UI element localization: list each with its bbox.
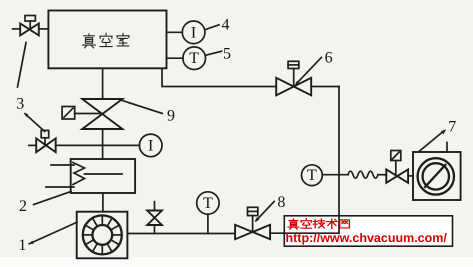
leader 7 arrowhead xyxy=(441,129,446,134)
valve 8 actuator box xyxy=(248,207,258,215)
valve 7v xyxy=(386,170,408,183)
svg-text:8: 8 xyxy=(277,194,285,211)
watermark box xyxy=(284,216,452,246)
leader 8 xyxy=(256,201,274,220)
pipe valve 9 to baffle box xyxy=(102,129,104,159)
vacuum chamber xyxy=(48,11,166,69)
valve 8 stem xyxy=(252,216,254,232)
svg-text:9: 9 xyxy=(167,108,175,125)
wire chamber to gauge I xyxy=(167,31,183,33)
valve 3a actuator box xyxy=(25,16,35,22)
leader 8 arrowhead xyxy=(255,217,260,222)
leader 1 arrowhead xyxy=(29,241,34,244)
main riser pipe xyxy=(338,87,340,234)
valve 6 (high-vacuum) xyxy=(276,78,311,96)
svg-text:http://www.chvacuum.com/: http://www.chvacuum.com/ xyxy=(286,231,448,245)
valve 7v stem xyxy=(395,161,397,176)
pump 1 inner circle xyxy=(92,225,112,245)
roughing pipe from pump xyxy=(127,233,235,235)
vent valve stub top xyxy=(154,202,156,211)
valve 3b stem xyxy=(44,138,46,145)
leader 5 xyxy=(206,51,222,55)
gauge T (foreline) xyxy=(302,165,323,186)
gauge Iz xyxy=(139,134,162,157)
valve 3a stem xyxy=(29,21,31,29)
svg-text:3: 3 xyxy=(16,96,24,113)
gauge I (ionization) xyxy=(182,21,205,44)
svg-text:7: 7 xyxy=(448,119,456,136)
roughing pipe valve 8 to riser xyxy=(270,232,339,234)
vent valve xyxy=(147,211,162,226)
leader 3 lower xyxy=(25,114,45,132)
baffle mid line xyxy=(85,173,123,175)
pump 1 outer circle xyxy=(83,215,122,254)
riser segment inside watermark xyxy=(338,216,340,233)
wire chamber to gauge T xyxy=(167,57,184,59)
pipe chamber bottom to valve 9 xyxy=(102,68,104,99)
leader 3 upper xyxy=(18,43,27,88)
svg-text:2: 2 xyxy=(19,198,27,215)
pipe chamber bottom-right to valve 6 xyxy=(162,68,276,86)
wire valve 3b to gauge Iz xyxy=(56,144,140,146)
valve 8 xyxy=(235,225,270,239)
valve 9 stem xyxy=(75,113,102,115)
unit 7 outer circle xyxy=(418,158,454,194)
roughing pipe inside watermark xyxy=(284,232,339,234)
svg-text:I: I xyxy=(191,24,196,41)
water line bottom xyxy=(46,186,74,188)
leader 2 xyxy=(34,192,71,205)
valve 3a (gas admittance, top) xyxy=(20,24,39,36)
flexible hose zigzag xyxy=(348,171,378,178)
svg-text:I: I xyxy=(148,137,153,154)
pump 1 square xyxy=(77,212,128,259)
valve 7v actuator box xyxy=(391,151,401,161)
vent valve stub bottom xyxy=(154,225,156,234)
pipe baffle to pump xyxy=(102,193,104,212)
watermark title 真空技术网 xyxy=(288,219,349,230)
gauge Tz stem xyxy=(207,214,209,233)
gauge T (thermocouple) xyxy=(183,47,206,70)
svg-text:T: T xyxy=(203,195,213,212)
leader 9 xyxy=(121,100,162,113)
pipe valve 6 to riser xyxy=(311,86,339,88)
leader 7 xyxy=(418,131,444,152)
valve 9 (main butterfly) xyxy=(82,99,122,129)
baffle box 2 xyxy=(71,159,135,193)
valve 6 actuator box xyxy=(288,61,299,68)
water line top xyxy=(51,164,74,166)
svg-text:4: 4 xyxy=(222,17,230,34)
wire stub left of valve 3a xyxy=(13,28,21,30)
wire stub left of valve 3b xyxy=(29,144,36,146)
wire gauge T to hose xyxy=(322,174,348,176)
svg-text:5: 5 xyxy=(223,45,231,62)
pump 1 spokes xyxy=(83,215,122,254)
valve 9 actuator box xyxy=(62,107,75,120)
gauge Tz xyxy=(197,192,219,214)
unit 7 top stub xyxy=(446,143,448,153)
wire hose to valve 7v xyxy=(378,174,386,176)
svg-text:1: 1 xyxy=(18,237,26,254)
svg-text:T: T xyxy=(189,50,199,67)
leader 6 arrowhead xyxy=(295,81,300,86)
valve 6 stem xyxy=(293,69,295,86)
leader 1 xyxy=(29,222,77,244)
leader 6 xyxy=(297,57,322,83)
baffle zigzag xyxy=(73,163,85,185)
svg-text:T: T xyxy=(307,167,317,184)
unit 7 box xyxy=(413,152,461,200)
valve 3b actuator box xyxy=(41,130,49,137)
leader 3 arrowhead xyxy=(24,113,28,117)
leader 4 xyxy=(205,25,219,30)
chamber text 真空室 xyxy=(83,33,130,48)
svg-text:6: 6 xyxy=(325,49,333,66)
valve 3b (gas admittance, lower) xyxy=(36,138,56,152)
unit 7 slash xyxy=(424,164,446,188)
unit 7 inner circle xyxy=(423,163,449,189)
wire valve 3a to chamber xyxy=(39,28,49,30)
pipe valve 7v to unit 7 xyxy=(408,175,413,177)
